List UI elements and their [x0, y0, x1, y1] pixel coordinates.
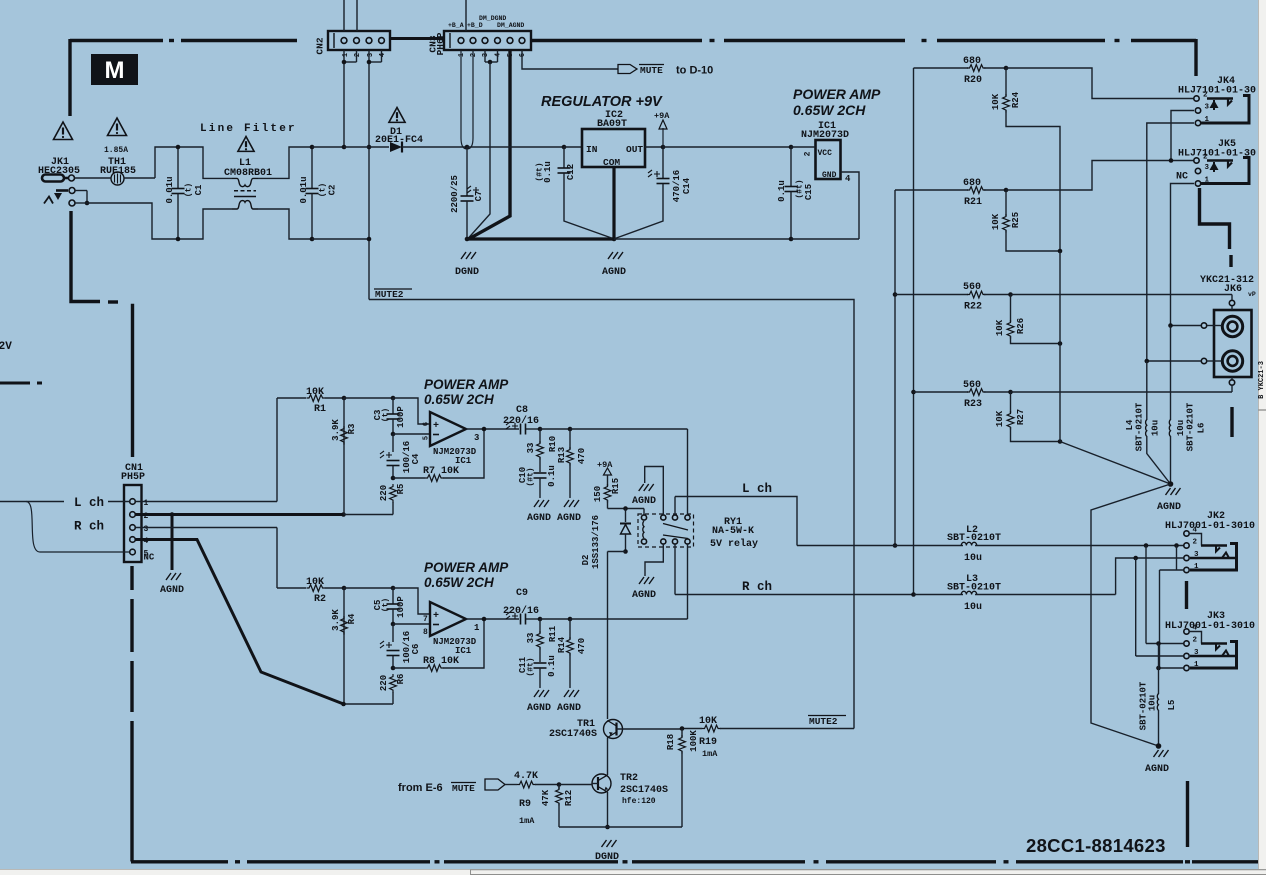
svg-text:IN: IN — [586, 144, 598, 155]
wire attenuator gnd rail — [1059, 251, 1061, 442]
wire CN2 pin1 to AC rail — [343, 50, 345, 147]
svg-text:1mA: 1mA — [519, 816, 535, 826]
svg-text:L5: L5 — [1167, 700, 1177, 711]
svg-text:150: 150 — [593, 486, 603, 502]
svg-text:3.9K: 3.9K — [331, 609, 341, 631]
inductor L4 — [1146, 420, 1147, 437]
svg-text:C4: C4 — [411, 453, 421, 464]
junction JK3 pin1 tap — [1156, 666, 1161, 671]
wire CN1 pin4 ground diagonal (thick) — [136, 540, 344, 705]
resistor R8 — [425, 665, 444, 672]
svg-text:560: 560 — [963, 282, 981, 293]
wire R line to JK2 pin3 — [1116, 558, 1184, 595]
ground AGND output — [1154, 750, 1169, 757]
wire JK3 pin3 — [1136, 655, 1184, 657]
node DGND bottom — [605, 825, 610, 830]
MUTE2 lower run — [682, 728, 702, 730]
supply arrow +9A — [662, 128, 664, 147]
node C2 bottom — [310, 237, 315, 242]
svg-text:L4: L4 — [1125, 419, 1135, 430]
svg-text:2: 2 — [1193, 637, 1198, 645]
svg-text:R20: R20 — [964, 75, 982, 86]
wire to L1 bottom — [178, 209, 232, 239]
wire CN2 pin1 off-page — [343, 0, 345, 31]
svg-text:6: 6 — [519, 53, 527, 57]
svg-text:470/16: 470/16 — [672, 170, 682, 202]
svg-text:(#t): (#t) — [527, 657, 536, 676]
power jack JK1 switch contacts — [69, 188, 75, 194]
op-amp IC1 unit B — [430, 602, 466, 636]
junction CN3 pins 3-4 — [488, 60, 493, 65]
module boundary right border bottom — [1186, 781, 1189, 847]
junction L rail — [893, 543, 898, 548]
wire D1 to +B node — [402, 146, 467, 148]
svg-text:R18: R18 — [666, 734, 676, 750]
wire jack switch — [75, 190, 87, 192]
svg-text:POWER AMP: POWER AMP — [424, 560, 509, 575]
svg-text:REGULATOR +9V: REGULATOR +9V — [541, 94, 663, 110]
svg-text:R2: R2 — [314, 594, 326, 605]
svg-text:DGND: DGND — [455, 267, 479, 278]
wire AC top rail — [312, 146, 344, 148]
wire -input amp1 — [393, 433, 429, 435]
warning triangle (power inlet) — [54, 122, 73, 140]
resistor R22 — [967, 291, 986, 298]
wire CN3 pins1-2 hairpin to +B node — [461, 50, 473, 149]
wire R22 row — [895, 294, 968, 296]
svg-text:1mA: 1mA — [702, 749, 718, 759]
svg-text:3: 3 — [1205, 164, 1210, 172]
node C1 bottom — [176, 237, 181, 242]
wire CN2 pin2 drop — [356, 50, 358, 62]
svg-text:M: M — [105, 57, 125, 84]
resistor R1 — [307, 395, 326, 402]
svg-text:AGND: AGND — [557, 703, 581, 714]
svg-text:OUT: OUT — [626, 144, 643, 155]
svg-text:10K: 10K — [995, 410, 1005, 427]
svg-text:L ch: L ch — [74, 496, 104, 510]
wire AGND rail right — [614, 238, 791, 240]
resistor R8 feedback — [393, 667, 425, 669]
node R20-R24 — [1004, 66, 1009, 71]
JK6 left pin lower — [1201, 358, 1206, 363]
wire attenuator gnd to star — [1060, 442, 1171, 485]
wire R20 row — [914, 67, 969, 69]
wire JK4 pin3 down — [1171, 111, 1194, 161]
capacitor C8 — [506, 422, 518, 429]
wire L input from edge — [0, 501, 64, 503]
svg-text:C14: C14 — [682, 177, 692, 194]
svg-text:12V: 12V — [0, 341, 12, 353]
ground AGND (CN1) — [166, 573, 181, 580]
node amp1 out — [482, 427, 487, 432]
svg-text:DGND: DGND — [595, 852, 619, 863]
wire to JK6 top — [1011, 294, 1233, 296]
common-mode choke L1 — [232, 178, 258, 186]
junction feedback gnd R — [341, 702, 346, 707]
svg-text:1.85A: 1.85A — [104, 146, 128, 155]
node attenuator gnd 1 — [1058, 249, 1063, 254]
resistor R25 — [1005, 190, 1007, 216]
ground AGND relay bottom — [639, 577, 654, 584]
wire relay contact1-bottom to AGND — [645, 544, 663, 576]
svg-text:0.65W 2CH: 0.65W 2CH — [793, 102, 866, 118]
svg-text:SBT-0210T: SBT-0210T — [1135, 402, 1145, 451]
svg-text:10u: 10u — [1148, 695, 1158, 711]
node TR2 base — [557, 782, 562, 787]
svg-text:MUTE: MUTE — [452, 783, 475, 794]
capacitor C2 — [311, 147, 313, 188]
svg-text:7: 7 — [423, 615, 428, 624]
svg-text:from E-6: from E-6 — [398, 782, 443, 794]
wire to JK4 pin2 — [1006, 68, 1194, 99]
svg-text:to D-10: to D-10 — [676, 65, 713, 77]
svg-text:IC1: IC1 — [455, 456, 472, 466]
resistor R9 — [517, 781, 536, 788]
svg-text:10u: 10u — [1176, 420, 1186, 436]
node DGND — [465, 237, 470, 242]
svg-text:2200/25: 2200/25 — [450, 175, 460, 213]
warning triangle TH1 — [108, 118, 127, 136]
capacitor C7 — [466, 147, 468, 196]
svg-text:R8 10K: R8 10K — [423, 656, 459, 667]
wire CN3 pin6 MUTE — [522, 50, 618, 69]
wire DC bottom rail left — [312, 238, 369, 240]
svg-text:8: 8 — [423, 628, 428, 637]
svg-text:AGND: AGND — [632, 496, 656, 507]
node C15 gnd — [789, 237, 794, 242]
svg-text:R ch: R ch — [74, 520, 104, 534]
svg-text:560: 560 — [963, 380, 981, 391]
svg-text:AGND: AGND — [1145, 764, 1169, 775]
svg-text:+B_D: +B_D — [467, 22, 483, 29]
svg-text:AGND: AGND — [160, 585, 184, 596]
svg-text:+9A: +9A — [654, 111, 670, 121]
svg-text:4: 4 — [379, 53, 387, 57]
node amp1 input — [342, 396, 347, 401]
svg-text:+9A: +9A — [597, 460, 613, 470]
wire CN1 pin3 to lower amp — [136, 527, 278, 529]
warning triangle D1 — [389, 108, 405, 123]
svg-text:PH6P: PH6P — [435, 32, 446, 55]
wire relay drive to TR1 — [607, 552, 609, 720]
wire R22 to JK6 pin — [1231, 295, 1233, 301]
svg-text:680: 680 — [963, 56, 981, 67]
relay RY1 outline — [638, 514, 694, 547]
node amp2 input — [342, 586, 347, 591]
wire L ch line — [797, 545, 963, 547]
svg-text:R27: R27 — [1016, 409, 1026, 425]
svg-text:DM_AGND: DM_AGND — [497, 22, 524, 29]
capacitor C15 — [790, 147, 792, 186]
wire TR2 emitter — [607, 792, 609, 827]
resistor R24 — [1005, 68, 1007, 96]
capacitor C14 — [662, 147, 664, 178]
svg-text:C6: C6 — [411, 644, 421, 655]
border link JK5 to JK6 (thick) — [1200, 188, 1230, 249]
svg-text:JK6: JK6 — [1224, 284, 1242, 295]
wire JK6 upper to hp line — [1171, 325, 1202, 327]
wire to L6 — [1170, 326, 1172, 421]
svg-text:10K: 10K — [306, 387, 324, 398]
svg-text:+: + — [433, 611, 439, 622]
adjacent module border fragment — [0, 382, 42, 385]
wire spk rail B — [894, 190, 896, 546]
svg-text:(t): (t) — [185, 183, 194, 197]
JK6 bottom pin — [1229, 380, 1234, 385]
junction R rail — [911, 592, 916, 597]
node relay drive top — [623, 506, 628, 511]
module letter M — [91, 54, 138, 85]
svg-text:R13: R13 — [557, 447, 567, 463]
svg-text:AGND: AGND — [632, 590, 656, 601]
resistor R7 feedback — [393, 477, 425, 479]
svg-text:POWER AMP: POWER AMP — [424, 377, 509, 392]
wire filter top-left jog — [155, 147, 178, 178]
node feedback L — [391, 476, 396, 481]
svg-text:1: 1 — [458, 53, 466, 57]
svg-text:+B_A: +B_A — [448, 22, 464, 29]
svg-text:220/16: 220/16 — [503, 415, 539, 427]
svg-text:R22: R22 — [964, 302, 982, 313]
svg-text:L6: L6 — [1197, 423, 1207, 434]
node zobel1 — [538, 427, 543, 432]
svg-text:SBT-0210T: SBT-0210T — [947, 533, 1001, 544]
wire star gnd to output gnd — [1091, 484, 1171, 746]
power jack JK1 barrel — [42, 175, 64, 182]
node amp2 out — [482, 617, 487, 622]
svg-text:100K: 100K — [689, 730, 699, 752]
svg-text:10K: 10K — [995, 319, 1005, 336]
wire JK6 bottom to R23 — [1231, 385, 1233, 392]
wire L out — [675, 497, 797, 546]
svg-text:HLJ7001-01-3010: HLJ7001-01-3010 — [1165, 621, 1255, 632]
node R13 top — [568, 427, 573, 432]
resistor R12 — [558, 785, 560, 790]
svg-text:AGND: AGND — [557, 513, 581, 524]
svg-text:COM: COM — [603, 157, 620, 168]
star ground node — [1168, 481, 1174, 487]
resistor R18 — [681, 729, 683, 738]
wire mute flag to R9 — [505, 784, 517, 786]
svg-text:(t): (t) — [382, 408, 391, 422]
svg-text:2: 2 — [804, 151, 813, 156]
node +B — [465, 145, 470, 150]
svg-text:33: 33 — [526, 633, 536, 644]
svg-text:47K: 47K — [541, 789, 551, 806]
junction pin3 at AC rail — [367, 145, 372, 150]
node IC1 VCC — [789, 145, 794, 150]
wire R to relay — [570, 618, 688, 620]
svg-text:R19: R19 — [699, 737, 717, 748]
svg-text:AGND: AGND — [1157, 502, 1181, 513]
svg-text:5V relay: 5V relay — [710, 538, 758, 550]
resistor R19 — [702, 725, 721, 732]
resistor R20 — [967, 65, 986, 72]
svg-text:C15: C15 — [804, 184, 814, 200]
node +9A — [661, 145, 666, 150]
node regulator input — [562, 145, 567, 150]
border link below JK6 (thick) — [1230, 407, 1233, 437]
svg-text:HLJ7001-01-3010: HLJ7001-01-3010 — [1165, 521, 1255, 532]
resistor R26 — [1010, 295, 1012, 323]
svg-text:C9: C9 — [516, 588, 528, 599]
svg-text:NC: NC — [1176, 172, 1188, 183]
wire L to CN1 pin1 — [108, 501, 130, 503]
svg-text:DM_DGND: DM_DGND — [479, 15, 506, 22]
wire to JK5 pin2 — [1006, 161, 1171, 191]
junction JK6 upper — [1168, 323, 1173, 328]
svg-text:GND: GND — [822, 171, 837, 180]
wire CN3 pin3 drop — [484, 50, 486, 62]
capacitor C4 — [392, 434, 394, 452]
node C2 top — [310, 145, 315, 150]
wire TR2 base stub — [592, 783, 598, 785]
svg-text:10K: 10K — [699, 716, 717, 727]
MUTE input flag — [485, 779, 505, 790]
module boundary bottom border — [131, 860, 228, 863]
svg-text:MUTE2: MUTE2 — [809, 716, 838, 727]
wire JK2 pin1 — [1160, 569, 1184, 571]
wire R3 branch — [343, 398, 345, 515]
node C3 top — [391, 396, 396, 401]
svg-text:R3: R3 — [347, 424, 357, 435]
connector CN3 — [444, 31, 531, 50]
wire CN3 off-page — [465, 0, 467, 31]
wire -input amp2 — [393, 623, 429, 625]
svg-text:0.1u: 0.1u — [547, 465, 557, 487]
svg-text:MUTE: MUTE — [640, 65, 663, 76]
svg-text:0.1u: 0.1u — [777, 180, 787, 202]
svg-text:33: 33 — [526, 443, 536, 454]
relay coil — [643, 509, 645, 516]
module boundary top border — [70, 39, 163, 42]
resistor R5 — [390, 484, 397, 503]
junction pin3 at bottom rail — [367, 237, 372, 242]
svg-text:2: 2 — [354, 53, 362, 57]
wire filter bottom-left jog — [87, 203, 178, 239]
junction AC rail — [342, 145, 347, 150]
wire IC2 OUT — [645, 146, 663, 148]
node -input amp1 — [391, 432, 396, 437]
wire amp1 output — [466, 428, 519, 430]
module boundary right border top — [1194, 39, 1197, 76]
supply arrow +9A relay — [604, 468, 612, 475]
node zobel2 — [538, 617, 543, 622]
white app strip bottom edge — [0, 869, 1266, 875]
svg-text:CN2: CN2 — [315, 37, 326, 54]
node C5 top — [391, 586, 396, 591]
svg-text:R15: R15 — [611, 478, 621, 494]
svg-text:NA-5W-K: NA-5W-K — [712, 526, 754, 537]
node R22 tap — [893, 292, 898, 297]
svg-text:IC1: IC1 — [455, 646, 472, 656]
wire JK6 lower to hp line — [1147, 360, 1201, 362]
wire IC2 COM to AGND (thick) — [612, 167, 615, 239]
output ground node — [1156, 743, 1162, 749]
line jack JK2 — [1184, 531, 1189, 536]
svg-text:220: 220 — [379, 675, 389, 691]
capacitor C1 — [177, 147, 179, 188]
svg-text:R24: R24 — [1011, 91, 1021, 108]
wire R23 row — [914, 391, 969, 393]
svg-text:28CC1-8814623: 28CC1-8814623 — [1026, 835, 1166, 856]
resistor R21 — [967, 187, 986, 194]
svg-text:10K: 10K — [306, 577, 324, 588]
connector CN1 — [124, 485, 142, 562]
svg-text:0.1u: 0.1u — [543, 161, 553, 183]
svg-text:4: 4 — [845, 174, 851, 184]
svg-text:10u: 10u — [964, 602, 982, 613]
svg-text:2: 2 — [470, 53, 478, 57]
wire to L4 — [1146, 361, 1148, 420]
junction pin2 gnd tap — [170, 512, 175, 517]
wire JK3 pin1 — [1160, 667, 1184, 669]
capacitor C6 — [392, 624, 394, 642]
svg-text:10K: 10K — [991, 93, 1001, 110]
capacitor C3 — [392, 398, 394, 414]
border link JK2 to JK3 (thick) — [1185, 581, 1188, 609]
wire to R1 — [277, 397, 306, 399]
node feedback R — [391, 666, 396, 671]
svg-text:Line Filter: Line Filter — [200, 123, 297, 135]
headphone jack JK4 — [1194, 96, 1199, 101]
svg-text:+: + — [433, 421, 439, 432]
wire input shield curve — [26, 502, 129, 553]
wire IC1 pin4 to gnd rail — [841, 172, 860, 239]
svg-text:R5: R5 — [396, 484, 406, 495]
svg-text:2: 2 — [1193, 539, 1198, 547]
warning triangle L1 — [238, 137, 254, 152]
svg-text:0.01u: 0.01u — [299, 176, 309, 203]
wire R21 row — [895, 189, 968, 191]
wire TR1 base — [617, 728, 683, 730]
RCA jack JK6 body — [1214, 310, 1252, 377]
wire JK2 pin2 to pin1 — [1176, 546, 1178, 571]
wire CN2 pin2 off-page — [356, 0, 358, 31]
wire gnd to R5 — [344, 514, 394, 516]
svg-text:0.1u: 0.1u — [547, 655, 557, 677]
ground AGND R14 — [564, 690, 579, 697]
junction JK4pin3-JK5pin2 — [1169, 158, 1174, 163]
svg-text:B YKC21-3: B YKC21-3 — [1258, 361, 1266, 399]
wire +B to C12 — [467, 146, 564, 148]
wire CN1 pin1 to upper amp — [136, 501, 278, 503]
relay contacts — [661, 515, 666, 520]
module boundary left border upper — [68, 39, 71, 116]
svg-text:C12: C12 — [566, 164, 576, 180]
JK6 top pin — [1229, 300, 1234, 305]
wire R amp to contact3 bottom — [687, 544, 689, 619]
resistor R27 — [1010, 392, 1012, 413]
svg-text:20E1-FC4: 20E1-FC4 — [375, 135, 423, 146]
svg-text:0.65W 2CH: 0.65W 2CH — [424, 392, 494, 407]
svg-text:470: 470 — [577, 638, 587, 654]
junction JK6 lower — [1145, 359, 1150, 364]
resistor R23 — [967, 389, 986, 396]
wire CN3 pin4 drop — [497, 50, 499, 62]
wire CN2 pin4 drop — [381, 50, 383, 62]
svg-text:3: 3 — [144, 525, 149, 534]
wire node to C3 — [344, 397, 393, 399]
node attenuator gnd 2 — [1058, 341, 1063, 346]
svg-text:100P: 100P — [396, 596, 406, 618]
svg-text:AGND: AGND — [602, 267, 626, 278]
svg-text:5: 5 — [423, 436, 431, 440]
svg-text:2SC1740S: 2SC1740S — [549, 729, 597, 740]
wire to +input amp1 — [393, 398, 429, 424]
wire JK1 to TH1 — [75, 177, 112, 179]
